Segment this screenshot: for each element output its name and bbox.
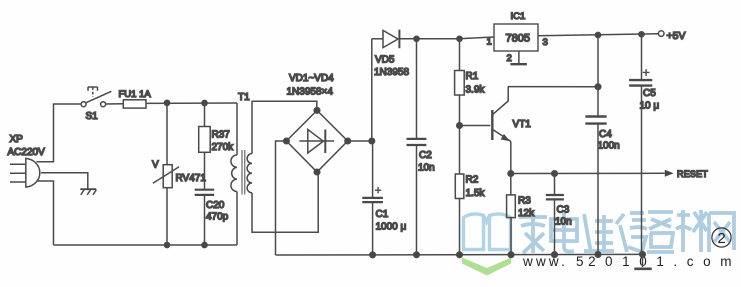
svg-text:2: 2 — [507, 53, 512, 64]
node bridge left — [284, 138, 290, 144]
node C3 bottom — [552, 252, 558, 258]
svg-text:RESET: RESET — [677, 169, 708, 179]
svg-text:10n: 10n — [418, 163, 435, 174]
svg-text:12k: 12k — [518, 208, 535, 219]
svg-text:C20: C20 — [206, 200, 225, 211]
svg-text:AC220V: AC220V — [8, 147, 46, 158]
resistor R37 — [199, 103, 211, 189]
svg-text:2: 2 — [717, 230, 725, 247]
node bridge bottom — [314, 169, 320, 175]
svg-text:C3: C3 — [557, 205, 570, 216]
capacitor C5 — [629, 34, 652, 254]
ground main — [634, 254, 651, 268]
node C2 top — [414, 36, 419, 41]
wire bridge right to riser — [348, 140, 372, 142]
earth ground — [80, 189, 96, 195]
node collector C4 — [595, 84, 601, 90]
wire plug top to switch — [37, 104, 82, 162]
svg-text:R2: R2 — [466, 175, 479, 186]
svg-text:+5V: +5V — [667, 30, 686, 42]
node bridge plus — [369, 138, 375, 144]
wire plug bottom to rail — [37, 181, 54, 245]
capacitor C3 — [546, 174, 564, 255]
capacitor C1 — [362, 141, 383, 255]
resistor R2 — [455, 174, 464, 255]
wire IC1 out to +5V — [538, 34, 658, 36]
svg-text:RV471: RV471 — [176, 173, 207, 184]
wire base — [460, 125, 491, 127]
capacitor C4 — [585, 35, 606, 255]
varistor V RV471 — [153, 103, 179, 245]
svg-text:1N3958: 1N3958 — [374, 67, 409, 78]
node C1 bottom — [370, 252, 376, 258]
resistor R1 — [455, 39, 465, 174]
node R3 bottom — [508, 252, 514, 258]
IC1 7805 — [494, 24, 538, 51]
wire secondary bottom to bridge — [252, 172, 318, 232]
ground IC1 pin2 — [510, 51, 527, 64]
wire plug middle to earth — [41, 173, 88, 189]
wire bottom rail primary — [54, 244, 238, 246]
wire collector rail — [508, 86, 598, 88]
svg-text:470p: 470p — [206, 212, 229, 223]
plug XP — [10, 158, 40, 187]
wire secondary top to bridge — [252, 101, 317, 153]
wire fuse to T1 — [146, 102, 237, 104]
svg-text:R1: R1 — [466, 71, 479, 82]
svg-text:1.5k: 1.5k — [466, 188, 486, 199]
svg-text:C1: C1 — [376, 209, 389, 220]
svg-text:1N3958×4: 1N3958×4 — [287, 87, 334, 98]
node C20 bottom — [202, 242, 207, 247]
svg-text:C2: C2 — [419, 150, 432, 161]
fuse FU1 — [123, 100, 146, 108]
node R37 top — [202, 100, 207, 105]
svg-text:R3: R3 — [518, 196, 531, 207]
node varistor bottom — [164, 242, 169, 247]
svg-text:VT1: VT1 — [513, 119, 532, 130]
circled 2 mark — [712, 228, 731, 247]
node C4 top — [595, 32, 600, 37]
wire RESET — [511, 172, 665, 174]
node base junction — [457, 123, 463, 129]
node bridge right — [345, 138, 351, 144]
svg-text:0101.com: 0101.com — [605, 254, 741, 269]
bridge rectifier VD1-VD4 — [286, 110, 347, 172]
svg-text:1: 1 — [487, 37, 492, 48]
top rail with diode VD5 — [372, 38, 383, 40]
svg-text:T1: T1 — [238, 92, 250, 103]
svg-text:www.: www. — [522, 254, 568, 269]
capacitor C20 — [195, 190, 215, 245]
transistor VT1 — [492, 87, 511, 174]
svg-text:FU1 1A: FU1 1A — [119, 89, 152, 100]
arrow RESET — [665, 170, 674, 177]
svg-text:10 μ: 10 μ — [640, 101, 660, 112]
wire VD5 to IC1 — [399, 37, 494, 39]
svg-text:C5: C5 — [643, 88, 656, 99]
transformer T1 — [231, 103, 252, 245]
svg-text:VD5: VD5 — [375, 55, 395, 66]
watermark book chevron — [462, 258, 511, 276]
resistor R3 — [507, 174, 516, 255]
watermark book icon — [464, 214, 511, 250]
svg-text:10n: 10n — [555, 217, 572, 228]
svg-text:3: 3 — [543, 37, 548, 48]
svg-text:270k: 270k — [212, 142, 235, 153]
wire bottom rail secondary — [276, 253, 643, 256]
svg-text:100n: 100n — [598, 141, 620, 152]
svg-text:VD1~VD4: VD1~VD4 — [289, 73, 334, 84]
wire riser to top rail — [371, 39, 373, 141]
svg-text:IC1: IC1 — [511, 11, 526, 22]
svg-text:S1: S1 — [86, 111, 99, 122]
switch S1 — [81, 87, 111, 107]
watermark chinese characters (drawn strokes) — [519, 210, 734, 253]
node R1 top — [457, 36, 462, 41]
diode VD5 — [383, 30, 399, 49]
node C3 top — [552, 171, 558, 177]
wire bridge minus to bottom rail — [276, 141, 287, 255]
node C4 bottom — [595, 252, 601, 258]
terminal +5V — [658, 31, 664, 37]
node C5 top — [639, 32, 644, 37]
node C5 bottom — [640, 252, 646, 258]
svg-text:1000 μ: 1000 μ — [376, 222, 407, 233]
node emitter — [508, 171, 514, 177]
node R2 bottom — [457, 252, 463, 258]
node C2 bottom — [414, 252, 420, 258]
svg-text:R37: R37 — [212, 130, 231, 141]
svg-text:7805: 7805 — [506, 33, 530, 45]
svg-text:V: V — [152, 160, 159, 171]
svg-text:3.9k: 3.9k — [466, 85, 486, 96]
node fuse-varistor — [164, 100, 169, 105]
svg-text:XP: XP — [10, 134, 24, 145]
svg-text:C4: C4 — [599, 129, 612, 140]
wire switch to fuse — [106, 103, 124, 105]
capacitor C2 — [407, 39, 427, 255]
node bridge top — [314, 108, 320, 114]
